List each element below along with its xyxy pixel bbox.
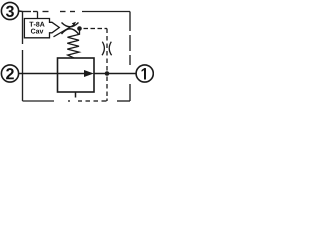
junction dot xyxy=(105,71,110,76)
port 1 circle xyxy=(136,65,153,82)
pilot line dashed vertical (through orifice to bottom) xyxy=(106,29,108,102)
envelope top edge (dashed) xyxy=(23,11,131,13)
main flow line to port 1 xyxy=(94,73,136,75)
adjustment arrow through orifice xyxy=(54,22,77,37)
cavity label text xyxy=(29,22,44,34)
envelope right edge (dashed) xyxy=(129,12,131,102)
pilot fixed orifice )( xyxy=(102,42,112,56)
cavity label leader xyxy=(37,12,39,19)
node dot (spring/pilot junction) xyxy=(77,26,82,31)
port 2 circle xyxy=(1,65,18,82)
cavity label banner T-8A Cav xyxy=(24,19,59,38)
envelope bottom edge (dashed) xyxy=(23,100,131,102)
main flow line from port 2 xyxy=(19,73,84,75)
spring xyxy=(67,29,79,59)
envelope left edge (dashed) xyxy=(22,12,24,102)
wire port3 to envelope corner xyxy=(19,10,23,13)
pilot stub below box xyxy=(75,92,77,98)
pilot relief variable orifice (arcs) xyxy=(62,23,79,35)
main valve box xyxy=(58,58,95,92)
port 3 circle xyxy=(1,2,18,19)
pilot line dashed horizontal xyxy=(84,28,108,30)
flow arrow head xyxy=(84,70,94,77)
